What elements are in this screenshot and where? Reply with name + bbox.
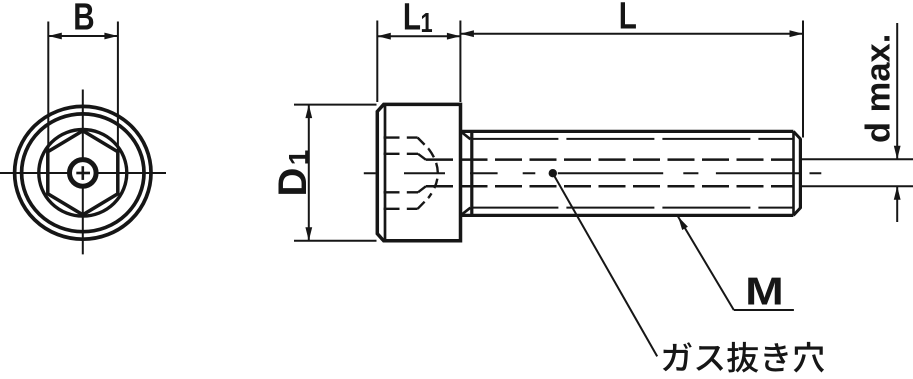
svg-text:B: B — [73, 0, 94, 39]
label text char き — [764, 343, 787, 371]
dimension D1 arrowhead top — [305, 105, 312, 119]
vertical centerline bottom segment — [82, 184, 84, 254]
label text char ガ — [663, 342, 692, 371]
horizontal centerline right segment — [98, 172, 166, 174]
hex socket drill circle — [39, 130, 127, 217]
dimension L1 extension line right — [459, 21, 461, 103]
dimension L arrowhead right — [790, 30, 804, 37]
dimension B arrowhead left — [48, 33, 62, 40]
thread M leader line — [678, 217, 734, 311]
hex socket hidden diagonal lower inner — [418, 186, 426, 192]
dimension D1 extension line top — [294, 104, 377, 106]
dimension D1 arrow line — [308, 105, 310, 241]
center mark horizontal dash — [76, 172, 90, 175]
dimension d max line upper — [896, 23, 898, 159]
dimension L extension line right — [802, 21, 804, 138]
thread runout line at shaft end — [792, 131, 795, 215]
gas vent hole hidden line lower — [426, 185, 793, 188]
shaft end chamfer top — [793, 131, 800, 139]
dimension d max extension line upper — [802, 158, 913, 160]
center mark vertical dash — [82, 166, 85, 180]
svg-text:L: L — [403, 0, 421, 39]
dimension d max arrowhead down — [894, 146, 901, 160]
gas vent hole circle — [70, 160, 97, 187]
dimension L1 arrowhead left — [377, 33, 391, 40]
dimension B arrowhead right — [104, 33, 118, 40]
svg-text:M: M — [745, 270, 784, 314]
hex socket hidden diagonal upper inner — [418, 154, 426, 160]
dimension L1 arrowhead right — [447, 33, 461, 40]
gas vent hole hidden line upper — [426, 158, 793, 161]
shaft end chamfer bottom — [793, 208, 800, 216]
dimension D1 arrowhead bottom — [305, 227, 312, 241]
svg-text:1: 1 — [283, 150, 314, 166]
shaft end face — [799, 138, 802, 208]
hex socket cone bottom arc — [429, 149, 438, 198]
shaft bottom edge — [459, 214, 793, 217]
thread chamfer diagonal bottom — [462, 208, 470, 215]
dimension d max arrowhead up — [894, 186, 901, 200]
svg-text:d max.: d max. — [860, 34, 898, 143]
dimension L1 arrow line — [377, 35, 460, 37]
hex socket hidden diagonal bottom outer — [418, 198, 429, 209]
gas vent hole label (katakana/kanji as paths) — [663, 342, 824, 373]
thread runout line — [470, 131, 473, 215]
label text char 穴 — [794, 342, 824, 373]
dimension B extension line right — [117, 22, 119, 153]
thread M label underline — [734, 309, 794, 311]
thread minor diameter line top — [470, 138, 793, 140]
vertical centerline top segment — [82, 90, 84, 163]
hex socket hexagon — [48, 131, 118, 215]
gas vent leader line — [553, 173, 657, 356]
hex socket hidden line upper — [384, 153, 419, 155]
dimension d max line lower — [896, 186, 898, 222]
thread minor diameter line bottom — [470, 207, 793, 209]
axis centerline — [364, 172, 822, 174]
head outer circle — [15, 106, 151, 239]
head face chamfer line — [384, 106, 387, 240]
thread M leader arrowhead — [678, 217, 688, 231]
dimension d max extension line lower — [802, 185, 913, 187]
gas vent leader dot — [549, 169, 557, 177]
hex socket hidden diagonal top outer — [418, 138, 429, 149]
head chamfer circle — [22, 114, 144, 232]
dimension L arrowhead left — [460, 30, 474, 37]
horizontal centerline left segment — [0, 172, 69, 174]
dimension B extension line left — [47, 22, 49, 153]
label text char 抜 — [727, 342, 758, 373]
dimension L1 extension line left — [376, 21, 378, 103]
dimension D1 extension line bottom — [294, 240, 377, 242]
head outline — [377, 104, 460, 240]
hex socket hidden line bottom — [384, 208, 418, 210]
label text char ス — [696, 346, 723, 371]
svg-text:1: 1 — [421, 7, 433, 38]
svg-text:D: D — [271, 168, 315, 197]
dimension L arrow line — [460, 33, 803, 35]
svg-text:L: L — [619, 0, 637, 37]
hex socket hidden line top — [384, 136, 418, 138]
hex socket hidden line lower — [384, 191, 419, 193]
thread chamfer diagonal top — [462, 133, 470, 140]
dimension B arrow line — [48, 35, 118, 37]
shaft top edge — [459, 130, 793, 133]
